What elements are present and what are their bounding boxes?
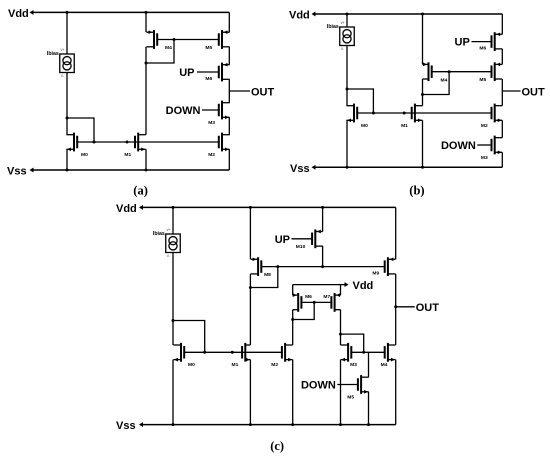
svg-text:DOWN: DOWN <box>301 380 336 392</box>
svg-text:M3: M3 <box>481 155 488 161</box>
svg-text:M4: M4 <box>165 45 172 51</box>
svg-text:M5: M5 <box>205 45 212 51</box>
svg-text:M3: M3 <box>350 362 357 368</box>
svg-text:UP: UP <box>179 67 194 79</box>
svg-text:Vdd: Vdd <box>289 10 310 22</box>
svg-text:M2: M2 <box>271 362 278 368</box>
svg-text:Vdd: Vdd <box>116 203 137 215</box>
svg-text:M1: M1 <box>232 362 239 368</box>
svg-text:Ibias: Ibias <box>153 231 165 237</box>
svg-text:M2: M2 <box>481 123 488 129</box>
svg-text:Vdd: Vdd <box>353 280 374 292</box>
svg-text:V-: V- <box>167 254 170 258</box>
svg-text:M5: M5 <box>479 77 486 83</box>
svg-text:DOWN: DOWN <box>441 140 476 152</box>
svg-text:M9: M9 <box>372 270 379 276</box>
svg-text:(a): (a) <box>133 184 148 198</box>
svg-text:M5: M5 <box>347 394 354 400</box>
svg-text:V-: V- <box>341 47 344 51</box>
svg-text:Ibias: Ibias <box>47 51 59 57</box>
svg-text:Vss: Vss <box>116 420 136 432</box>
svg-text:M2: M2 <box>208 152 215 158</box>
svg-text:(b): (b) <box>409 184 424 198</box>
svg-text:V+: V+ <box>61 48 65 52</box>
svg-text:M3: M3 <box>208 120 215 126</box>
svg-text:M10: M10 <box>296 244 306 250</box>
svg-text:(c): (c) <box>270 439 284 453</box>
svg-text:M6: M6 <box>205 76 212 82</box>
svg-text:M6: M6 <box>479 45 486 51</box>
svg-text:UP: UP <box>275 234 290 246</box>
svg-text:DOWN: DOWN <box>166 105 201 117</box>
svg-text:M7: M7 <box>323 294 330 300</box>
svg-text:OUT: OUT <box>251 86 275 98</box>
svg-text:M1: M1 <box>124 152 131 158</box>
svg-text:V-: V- <box>61 74 64 78</box>
svg-text:V+: V+ <box>341 21 345 25</box>
svg-text:M0: M0 <box>81 152 88 158</box>
svg-text:M4: M4 <box>381 362 388 368</box>
svg-text:Vdd: Vdd <box>8 8 29 20</box>
svg-text:Vss: Vss <box>7 166 27 178</box>
svg-text:Vss: Vss <box>290 163 310 175</box>
svg-text:M4: M4 <box>441 78 448 84</box>
svg-text:M0: M0 <box>188 362 195 368</box>
svg-text:OUT: OUT <box>416 302 440 314</box>
svg-text:M8: M8 <box>264 272 271 278</box>
svg-text:UP: UP <box>455 37 470 49</box>
svg-text:M1: M1 <box>401 123 408 129</box>
svg-text:M0: M0 <box>361 123 368 129</box>
svg-text:V+: V+ <box>167 228 171 232</box>
svg-text:OUT: OUT <box>522 86 546 98</box>
svg-text:Ibias: Ibias <box>327 24 339 30</box>
svg-text:M6: M6 <box>305 294 312 300</box>
